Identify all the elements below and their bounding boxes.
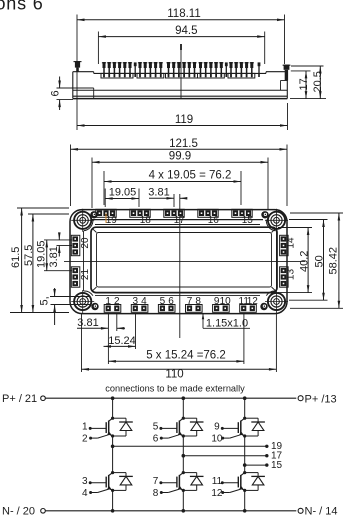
transistor Q4 xyxy=(177,471,185,492)
dimension 99.9 (lid width) xyxy=(92,151,268,210)
dimension 19.05 (top group pitch) xyxy=(105,186,139,207)
aux emitter pin 6 xyxy=(153,434,180,445)
dimension 118.11 (side view overall pin span) xyxy=(77,8,285,130)
svg-text:8: 8 xyxy=(153,488,159,499)
dimension 121.5 (module overall width) xyxy=(71,138,288,206)
svg-text:4: 4 xyxy=(82,488,88,499)
svg-text:11: 11 xyxy=(212,476,223,487)
svg-text:4 x 19.05 = 76.2: 4 x 19.05 = 76.2 xyxy=(149,169,232,181)
dimension 5 (bottom pad offset) xyxy=(39,288,91,325)
svg-text:7: 7 xyxy=(153,476,159,487)
transistor Q1 xyxy=(106,417,114,438)
left edge pin groups 20,21 xyxy=(71,235,91,287)
terminal N-/20 xyxy=(2,506,45,518)
dimension 61.5 (overall height) xyxy=(10,208,69,313)
svg-text:14: 14 xyxy=(286,237,297,249)
dimension 57.5 xyxy=(23,214,69,313)
side-view signal pin clusters xyxy=(101,44,260,99)
gate pin 3 xyxy=(82,476,106,487)
node output 17 xyxy=(182,451,283,462)
svg-text:15: 15 xyxy=(271,460,283,471)
svg-text:7: 7 xyxy=(187,296,193,307)
svg-text:17: 17 xyxy=(298,78,310,90)
wire: leg 2 to N- rail xyxy=(182,490,186,512)
svg-text:5,: 5, xyxy=(39,296,51,305)
wire: leg 3 midsection xyxy=(244,436,246,473)
wire: leg 2 from P+ rail xyxy=(182,396,186,418)
gate pin 7 xyxy=(153,476,177,487)
side-view right mounting terminal pin xyxy=(283,65,291,81)
dimension 20.5 (overall height) xyxy=(290,66,326,99)
side-view left mounting terminal pin xyxy=(74,61,82,72)
dimension 110 (body width) xyxy=(82,314,277,381)
svg-text:ons 6: ons 6 xyxy=(0,0,44,14)
wire: leg 3 to N- rail xyxy=(243,490,247,512)
diode D3 (antiparallel) xyxy=(183,418,203,436)
svg-text:2: 2 xyxy=(114,296,120,307)
svg-text:13: 13 xyxy=(286,269,297,281)
svg-text:50: 50 xyxy=(314,255,326,267)
svg-text:1.15x1.0: 1.15x1.0 xyxy=(206,317,248,329)
aux emitter pin 4 xyxy=(82,488,109,499)
pin cross-section note 1.15x1.0 xyxy=(202,313,250,329)
svg-text:connections to be made externa: connections to be made externally xyxy=(105,384,245,394)
svg-text:20.5: 20.5 xyxy=(312,71,324,92)
module side-view body outline xyxy=(73,72,287,99)
top edge pin groups 19,18,17,16,15 xyxy=(96,209,253,226)
wire: leg 1 midsection xyxy=(112,436,114,473)
page heading fragment (cropped) xyxy=(0,0,44,14)
svg-text:119: 119 xyxy=(175,114,193,126)
aux emitter pin 10 xyxy=(211,434,240,445)
dimension 3.81 (left pin pitch, vertical) xyxy=(48,232,72,267)
dimension 58.42 (pin row span, right) xyxy=(290,213,343,308)
svg-text:3.81: 3.81 xyxy=(148,186,169,198)
diode D1 (antiparallel) xyxy=(113,418,133,436)
dimension 19.05 (left pad pitch, vertical) xyxy=(35,240,72,271)
aux emitter pin 8 xyxy=(153,488,180,499)
svg-text:1: 1 xyxy=(82,422,88,433)
svg-text:99.9: 99.9 xyxy=(169,151,191,163)
svg-text:10: 10 xyxy=(220,296,232,307)
svg-text:N- / 14: N- / 14 xyxy=(305,506,338,518)
diode D5 (antiparallel) xyxy=(245,418,265,436)
svg-text:19: 19 xyxy=(106,215,118,226)
svg-text:118.11: 118.11 xyxy=(167,8,200,20)
dimension 3.81 (top pin pitch) xyxy=(148,186,187,338)
svg-text:P+ / 21: P+ / 21 xyxy=(2,393,37,405)
svg-text:19.05: 19.05 xyxy=(35,240,47,268)
svg-text:58.42: 58.42 xyxy=(328,247,340,275)
dimension 50 (body height, right) xyxy=(289,220,328,301)
terminal P+/21 xyxy=(2,393,45,405)
wire: leg 1 from P+ rail xyxy=(111,396,115,418)
svg-text:110: 110 xyxy=(165,369,183,381)
dimension 17 (terminal height) xyxy=(291,71,311,99)
horizontal centreline xyxy=(64,260,305,262)
svg-text:12: 12 xyxy=(247,296,259,307)
svg-text:5: 5 xyxy=(160,296,166,307)
dimension 94.5 (side view signal pin span) xyxy=(98,25,264,64)
transistor Q6 xyxy=(238,471,246,492)
svg-text:94.5: 94.5 xyxy=(175,25,197,37)
svg-text:17: 17 xyxy=(174,215,186,226)
svg-text:6: 6 xyxy=(168,296,174,307)
svg-text:4: 4 xyxy=(141,296,147,307)
right edge pin groups 14,13 xyxy=(280,235,297,287)
svg-text:5 x 15.24 =76.2: 5 x 15.24 =76.2 xyxy=(146,350,226,362)
corner mounting bosses and fillets xyxy=(74,212,285,310)
lid outline xyxy=(91,227,277,292)
svg-text:57.5: 57.5 xyxy=(23,245,35,266)
svg-text:19.05: 19.05 xyxy=(109,186,137,198)
svg-text:3: 3 xyxy=(82,476,88,487)
transistor Q3 xyxy=(177,417,185,438)
svg-text:16: 16 xyxy=(208,215,220,226)
transistor Q2 xyxy=(106,471,114,492)
mounting holes with crosshairs xyxy=(71,209,288,313)
dimension 3.81 (bottom pin pitch) xyxy=(77,314,125,365)
svg-text:12: 12 xyxy=(211,488,223,499)
svg-text:3.81: 3.81 xyxy=(77,317,98,329)
svg-text:61.5: 61.5 xyxy=(10,247,22,268)
svg-text:40.2: 40.2 xyxy=(299,251,311,272)
node output 15 xyxy=(243,460,283,471)
aux emitter pin 2 xyxy=(82,434,109,445)
gate pin 9 xyxy=(214,422,238,433)
aux emitter pin 12 xyxy=(211,488,240,499)
orange pin-1 marker tick xyxy=(105,214,107,224)
lid bevel inner outline xyxy=(93,229,276,291)
svg-text:20: 20 xyxy=(80,237,91,249)
gate pin 1 xyxy=(82,422,106,433)
svg-text:6: 6 xyxy=(153,434,159,445)
wire: leg 1 to N- rail xyxy=(111,490,115,512)
dimension 4 x 19.05 = 76.2 (top pin group span) xyxy=(104,169,241,205)
gate pin 5 xyxy=(153,422,177,433)
diode D6 (antiparallel) xyxy=(245,473,265,491)
svg-text:121.5: 121.5 xyxy=(169,138,198,150)
svg-text:3.81: 3.81 xyxy=(48,246,60,267)
svg-text:N- / 20: N- / 20 xyxy=(2,506,35,518)
svg-text:2: 2 xyxy=(82,434,88,445)
N- rail wire xyxy=(45,510,296,512)
svg-text:10: 10 xyxy=(211,434,223,445)
svg-text:9: 9 xyxy=(214,422,220,433)
svg-text:6: 6 xyxy=(50,90,62,96)
schematic note xyxy=(105,384,245,394)
svg-text:5: 5 xyxy=(153,422,159,433)
P+ rail wire xyxy=(45,397,296,399)
dimension 5 x 15.24 = 76.2 xyxy=(108,314,244,364)
transistor Q5 xyxy=(238,417,246,438)
dimension 15.24 (bottom group pitch) xyxy=(104,314,136,349)
terminal N-/14 xyxy=(298,506,337,518)
svg-text:3: 3 xyxy=(133,296,139,307)
gate pin 11 xyxy=(212,476,239,487)
wire: leg 2 midsection xyxy=(182,436,184,473)
node output 19 xyxy=(111,441,283,452)
bottom edge pin groups 1..12 xyxy=(104,296,258,312)
dimension 119 (baseplate width) xyxy=(77,103,288,130)
wire: leg 3 from P+ rail xyxy=(243,396,247,418)
svg-text:P+ /13: P+ /13 xyxy=(305,393,337,405)
rim step lines xyxy=(84,220,277,296)
dimension 40.2 (lid height, right) xyxy=(278,228,312,293)
svg-text:21: 21 xyxy=(80,269,91,281)
svg-text:8: 8 xyxy=(195,296,201,307)
svg-text:15: 15 xyxy=(242,215,254,226)
svg-text:15.24: 15.24 xyxy=(108,335,136,347)
terminal P+/13 xyxy=(298,393,337,405)
dimension 6 (baseplate thickness) xyxy=(50,77,94,111)
corner screws (dark) xyxy=(90,211,268,310)
diode D4 (antiparallel) xyxy=(183,473,203,491)
svg-text:18: 18 xyxy=(140,215,152,226)
module top-view outer outline xyxy=(70,210,287,314)
svg-text:1: 1 xyxy=(105,296,111,307)
diode D2 (antiparallel) xyxy=(113,473,133,491)
